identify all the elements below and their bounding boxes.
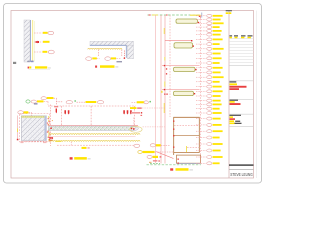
D3 wavy insulation row B <box>49 139 141 142</box>
inner drawing frame <box>11 11 254 179</box>
D2 leader A yellow text <box>92 57 97 59</box>
D3 column corner red bits <box>47 123 48 124</box>
D4 right label row 17 <box>196 86 206 88</box>
D4 right label row 18 <box>196 90 206 92</box>
D1 leader 1 ellipse <box>48 31 54 34</box>
D4 cabinet left side <box>173 117 175 155</box>
D3 hanger arrows A <box>64 110 66 114</box>
D3 furring red dot left <box>50 128 52 130</box>
D4 right label row 8 <box>196 43 206 45</box>
D4 right label row 19 <box>196 95 206 97</box>
D4 diagonal red leader <box>156 152 173 159</box>
D3 label L1 green ellipse <box>26 100 30 103</box>
D4 red connector 1 <box>165 40 192 42</box>
D4 left label e <box>130 107 137 109</box>
D4 bottom red cluster <box>153 160 158 161</box>
D3 label L3 green tick <box>74 100 76 101</box>
D4 red tick box1 <box>198 22 199 23</box>
D3 label L5 yellow text <box>24 111 29 113</box>
revision table header <box>230 35 233 36</box>
D4 slab green dashed line <box>148 14 201 16</box>
D1 leader 3 ellipse <box>48 50 54 54</box>
D2 leader A ellipse <box>86 57 92 61</box>
D4 right label row 4 <box>196 26 206 28</box>
D2 ceiling soffit blue line <box>90 44 127 46</box>
D3 title trailing note <box>88 158 91 159</box>
D4 bottom green seg <box>150 162 160 164</box>
D3 dim dark text top <box>34 103 38 104</box>
D3 yellow stud dashes <box>48 116 50 140</box>
D3 label L5 ellipse <box>18 111 24 114</box>
D2 title trailing note <box>115 66 118 67</box>
D4 left label f red <box>131 112 140 114</box>
D4 left label l <box>147 155 152 158</box>
D2 corner red dash drop <box>123 51 125 58</box>
D3 label L4 yellow text <box>86 101 97 103</box>
D1 wall face line blue <box>30 20 32 62</box>
D3 label L5 wire <box>29 111 32 113</box>
D4 title trailing note <box>190 169 193 170</box>
D4 right label row 21 <box>196 103 206 105</box>
scale section divider <box>229 113 254 115</box>
D4 base red marks <box>178 159 179 160</box>
frame shadow line right <box>255 11 257 179</box>
D4 right label row 2 <box>196 19 206 21</box>
D3 lower leader yellow text <box>82 147 87 149</box>
D1 finish layer yellow line <box>32 20 34 62</box>
drawn dark value <box>235 123 242 124</box>
D3 red stud dashed line <box>49 105 51 147</box>
D3 label L2 yellow text <box>47 97 54 99</box>
D4 right label row 16 <box>196 81 206 83</box>
D4 vertical line 2 <box>160 15 162 164</box>
drawing-title section divider <box>229 98 254 100</box>
D4 title yellow text <box>176 168 189 171</box>
D4 yellow dash seg b <box>164 57 166 61</box>
D1 leader 1 wire <box>34 32 43 34</box>
D4 right label row 23 <box>196 112 206 114</box>
D4 blocking box 3 <box>174 67 196 71</box>
project section divider <box>229 80 254 82</box>
revision table rows <box>229 38 254 40</box>
D3 hanger arrows B <box>123 110 125 114</box>
D4 vertical line 1 <box>155 15 157 164</box>
D4 slab end blue tick <box>201 13 203 18</box>
project red text line2 <box>230 88 240 90</box>
D3 label L3 wire <box>56 101 63 103</box>
D2 leader B yellow text <box>111 57 116 59</box>
D1 title underline <box>29 69 51 71</box>
D3 red dashed finish outline <box>20 114 50 142</box>
D3 column bottom red marks <box>21 140 47 142</box>
D4 cabinet shelf <box>174 135 200 137</box>
D3 rail drop 1 <box>60 106 62 125</box>
D3 title number red <box>70 157 73 159</box>
D4 right label row 30 <box>196 156 206 158</box>
D3 rail drop 2 <box>90 106 92 125</box>
D4 cabinet bottom <box>174 152 200 154</box>
D1 leader 2 wire <box>40 41 43 43</box>
D4 right label row 1 <box>196 15 206 17</box>
D4 left label j <box>150 144 155 147</box>
D3 label L2 ellipse <box>41 97 46 100</box>
D4 red connector 3 <box>162 89 200 91</box>
D3 clip red mark <box>49 138 53 141</box>
D4 right label row 5 <box>196 30 206 32</box>
D1 leader 2 red arrow <box>34 41 37 44</box>
revision table bottom divider <box>229 64 254 66</box>
D4 right label row 7 <box>196 38 206 40</box>
D2 title number red <box>95 66 97 68</box>
D4 right label row 13 <box>196 67 206 69</box>
D4 base bottom blue line <box>177 162 201 164</box>
D4 right label row 12 <box>196 62 206 64</box>
D3 rail drop 3 <box>134 106 136 125</box>
D2 wall hatch band vertical <box>127 45 133 59</box>
D4 red dots g <box>164 94 165 95</box>
D4 big pale ellipse <box>130 126 142 132</box>
D3 furring channel band <box>49 126 132 130</box>
svg-text:STEVE LEUNG: STEVE LEUNG <box>230 172 253 177</box>
D3 label L2 wire <box>54 97 57 99</box>
D4 red connector 2 <box>162 65 200 67</box>
drawing-title red text <box>230 103 241 105</box>
D4 right label row 27 <box>196 137 206 139</box>
sheet background <box>0 0 265 187</box>
D2 ceiling hatch band <box>90 41 134 45</box>
D4 vertical line 3 <box>164 15 166 164</box>
D3 left vertical leader <box>17 116 19 140</box>
D3 wavy insulation row A <box>49 133 141 136</box>
logo heavy rule <box>229 164 254 165</box>
D1 finish layer line2 <box>33 21 35 62</box>
D3 label L1 yellow text <box>37 100 44 102</box>
D2 leader B drop wire <box>121 50 123 57</box>
date dark value <box>235 121 240 122</box>
dwg-no section divider <box>229 126 254 128</box>
D4 yellow dash seg e <box>164 82 166 87</box>
D4 right label row 3 <box>196 22 206 24</box>
D1 dim dark text <box>27 61 30 62</box>
D3 label L4 wire <box>77 101 86 103</box>
D4 right label row 20 <box>196 100 206 102</box>
D1 title number red <box>28 67 30 69</box>
drawn yellow <box>230 123 235 125</box>
logo thin rule <box>229 169 254 171</box>
D3 red drop arrows left <box>56 109 57 114</box>
title block left border <box>228 11 230 179</box>
D4 cabinet right side <box>198 117 200 152</box>
D4 blocking box 4 <box>174 91 194 95</box>
D4 right label row 6 <box>196 34 206 36</box>
D4 floor green dashed <box>147 164 202 166</box>
project yellow text <box>230 83 238 85</box>
D4 yellow dash seg c <box>163 103 165 113</box>
D4 cabinet red dots <box>173 121 174 122</box>
scale yellow1 <box>230 116 234 118</box>
D4 slab red segment <box>149 14 151 15</box>
D3 label L4 ellipse <box>97 101 103 104</box>
D3 beam top red line <box>49 125 139 127</box>
D4 red dots h <box>166 68 167 69</box>
D4 right label row 24 <box>196 118 206 120</box>
D2 plaster wavy line <box>88 47 123 50</box>
D4 right label row 29 <box>196 150 206 152</box>
D3 column hatch square <box>21 116 46 141</box>
D4 right label row 9 <box>196 48 206 50</box>
outer sheet border <box>4 4 262 184</box>
D3 lower leader ellipse <box>134 144 140 147</box>
D4 cabinet base box <box>177 155 201 163</box>
D3 column top finish band <box>21 116 46 118</box>
date yellow <box>230 120 235 122</box>
D3 label L1 ellipse <box>31 100 36 103</box>
scale label dark text <box>230 115 242 116</box>
D4 right label row 11 <box>196 57 206 59</box>
D3 label L3 ellipse <box>66 101 72 104</box>
D4 right label row 28 <box>196 143 206 145</box>
title block sheet-no label <box>226 10 232 11</box>
D1 leader 3 yellow text <box>43 51 48 53</box>
D3 mid faint red line <box>49 136 136 138</box>
D4 yellow dash seg d <box>186 146 188 152</box>
scale red text <box>230 118 236 120</box>
D2 dim text dark <box>117 61 123 62</box>
D4 left label d <box>132 101 137 103</box>
D4 right label row 25 <box>196 124 206 126</box>
D2 leader A drop wire <box>97 50 99 57</box>
D1 title yellow text <box>35 66 47 68</box>
D1 leader 2 yellow text <box>43 41 50 43</box>
D4 right label row 14 <box>196 71 206 73</box>
D4 right label row 31 <box>196 162 206 164</box>
D3 title yellow text <box>74 157 87 160</box>
D3 label L1 wire <box>44 101 48 103</box>
drawing-title label text <box>230 100 239 101</box>
D3 column right blue strip <box>44 116 46 141</box>
project label text <box>230 81 237 82</box>
D3 bottom yellow dash <box>56 141 62 142</box>
D2 leader B wire <box>116 58 120 60</box>
D4 red tick box3 <box>195 69 196 70</box>
project red text line1 <box>230 86 247 88</box>
D4 blocking box 1 <box>176 19 198 23</box>
D4 right leader trunk <box>200 16 202 163</box>
D2 title yellow text <box>100 65 115 68</box>
D2 wavy red ticks <box>89 48 122 50</box>
D3 lower leader rail <box>57 144 134 146</box>
D1 wall hatch band <box>24 20 30 62</box>
D4 slab yellow segment <box>152 14 158 16</box>
D4 title number red <box>170 168 173 170</box>
D4 right label row 15 <box>196 76 206 78</box>
D1 title scale note <box>48 67 51 68</box>
D3 lower leader drop <box>70 142 72 146</box>
D4 vertical red dashed 4 <box>169 15 171 117</box>
D4 right label row 26 <box>196 130 206 132</box>
D3 upper red dashed rail <box>48 105 136 107</box>
D3 stud red speckles <box>48 118 49 119</box>
D1 leader 3 wire <box>34 51 42 53</box>
D4 red tick box4 <box>194 93 195 94</box>
D4 right label row 10 <box>196 53 206 55</box>
fold mark left margin <box>13 62 16 64</box>
D4 red tick box2 <box>193 45 194 46</box>
drawing-title yellow text <box>230 101 235 103</box>
D4 left label k <box>138 151 142 154</box>
D1 leader 1 yellow text <box>43 32 48 34</box>
D4 blocking box 2 <box>174 43 193 48</box>
D4 slab corner drop <box>199 15 201 19</box>
D3 furring rounded end <box>132 126 139 130</box>
D4 yellow dash seg a <box>163 28 165 34</box>
D4 slab end yellow segment <box>190 15 201 16</box>
D4 right label row 22 <box>196 108 206 110</box>
D4 cabinet top <box>173 116 199 118</box>
D4 yellow tick f <box>161 91 163 93</box>
D4 cabinet red dash b <box>187 147 200 149</box>
D2 leader A wire <box>96 58 99 60</box>
D3 furring red dot right <box>131 128 133 130</box>
D2 leader B ellipse <box>105 57 111 61</box>
title block sheet-no yellow <box>226 12 229 14</box>
D2 wall face blue line <box>125 45 127 58</box>
D4 cabinet red dash a <box>174 125 199 127</box>
D4 left label h red dash <box>143 126 166 128</box>
